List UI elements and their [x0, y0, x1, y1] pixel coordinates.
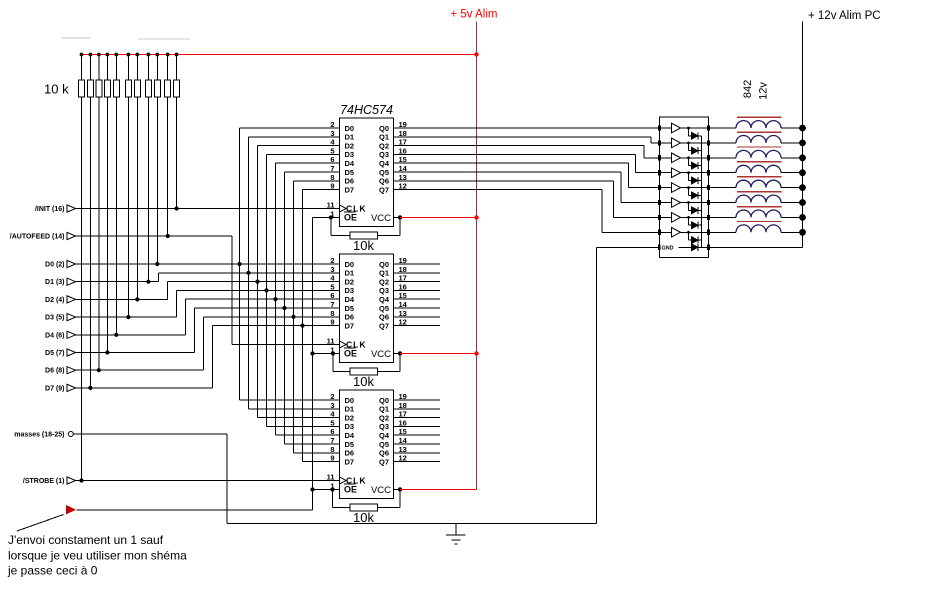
wire OE-resistor loop left U2 — [332, 354, 334, 372]
svg-text:Q6: Q6 — [379, 449, 389, 458]
wire U1 Q5 to buffer 6 — [621, 202, 660, 204]
wire VCC U3 to +5v — [400, 489, 477, 491]
buffer U4 channel 7 — [660, 216, 672, 218]
svg-text:D1: D1 — [345, 269, 355, 278]
+12v vertical rail — [802, 22, 804, 248]
wire /AUTOFEED horizontal — [76, 235, 232, 237]
svg-text:VCC: VCC — [371, 213, 391, 224]
svg-text:Q2: Q2 — [379, 413, 389, 422]
wire D7 to U2 pin 9 — [213, 325, 340, 327]
wire D3 to U1 pin 5 — [267, 153, 340, 155]
wire D4 horizontal from connector — [76, 334, 186, 336]
inductor coil L4 — [709, 172, 737, 174]
core line for L8 — [737, 221, 782, 223]
svg-text:D4 (6): D4 (6) — [45, 332, 64, 339]
svg-text:OE: OE — [344, 349, 357, 359]
svg-text:3: 3 — [330, 401, 334, 410]
wire U4 GND to ground — [597, 246, 660, 248]
diode D3 flyback — [687, 156, 690, 159]
wire D0 to U2 pin 2 — [76, 263, 340, 265]
node +12v junction 4 — [799, 169, 806, 176]
wire data bus vertical D2 — [257, 146, 259, 418]
svg-text:5: 5 — [330, 146, 334, 155]
wire OE control row from red arrow — [77, 509, 313, 511]
wire U1 Q6 horizontal — [394, 180, 614, 182]
svg-text:8: 8 — [330, 309, 334, 318]
buffer U4 channel 4 — [660, 172, 672, 174]
wire D2 horizontal from connector — [76, 298, 168, 300]
svg-text:Q3: Q3 — [379, 422, 389, 431]
wire OE-resistor loop right U2 — [378, 371, 401, 373]
svg-text:D2: D2 — [345, 141, 355, 150]
wire D6 to U2 pin 8 — [204, 316, 340, 318]
svg-text:D2: D2 — [345, 413, 355, 422]
svg-text:D0 (2): D0 (2) — [45, 262, 64, 269]
svg-text:8: 8 — [330, 173, 334, 182]
resistor R6 10k pull-up — [127, 55, 129, 81]
svg-text:Q5: Q5 — [379, 304, 389, 313]
wire OE-resistor loop right U1 — [378, 235, 401, 237]
buffer U4 channel 2 — [660, 142, 672, 144]
svg-text:VCC: VCC — [371, 485, 391, 496]
wire U2 Q4 stub — [394, 298, 441, 300]
wire D6 staircase vertical — [203, 317, 205, 370]
svg-text:8: 8 — [330, 445, 334, 454]
svg-text:D5: D5 — [345, 168, 355, 177]
wire U1 Q0 to buffer 1 — [394, 127, 660, 129]
wire D6 horizontal from connector — [76, 369, 204, 371]
svg-text:D0: D0 — [345, 260, 355, 269]
wire U1 Q1 staircase vertical — [650, 137, 652, 143]
resistor R7 10k pull-up — [136, 55, 138, 81]
inductor coil L7 — [709, 216, 737, 218]
wire U1 Q7 staircase vertical — [601, 190, 603, 233]
svg-text:D3: D3 — [345, 150, 355, 159]
resistor 10k U2 — [350, 368, 378, 375]
buffer U4 channel 6 — [660, 202, 672, 204]
svg-text:842: 842 — [742, 80, 754, 98]
wire U4 COM to +12v — [709, 246, 803, 248]
label GND inside U4 — [661, 243, 679, 251]
svg-text:D1 (3): D1 (3) — [45, 279, 64, 286]
wire U1 Q3 horizontal — [394, 153, 636, 155]
core line for L6 — [737, 191, 782, 193]
diode D4 flyback — [687, 171, 690, 174]
wire D3 horizontal from connector — [76, 316, 177, 318]
wire D1 to U2 pin 3 — [159, 272, 340, 274]
wire U1 Q1 horizontal — [394, 136, 652, 138]
wire diode common rail — [701, 136, 703, 248]
diode D6 flyback — [687, 201, 690, 204]
svg-text:Q4: Q4 — [379, 295, 390, 304]
svg-text:D6: D6 — [345, 313, 355, 322]
svg-text:OE: OE — [344, 213, 357, 223]
wire D3 to U2 pin 5 — [177, 289, 340, 291]
core line for L3 — [737, 146, 782, 148]
wire data bus vertical D4 — [275, 163, 277, 435]
svg-text:74HC574: 74HC574 — [340, 103, 393, 117]
svg-text:D4: D4 — [345, 159, 355, 168]
resistor R11 10k pull-up — [176, 55, 178, 81]
svg-text:lorsque je veu utiliser mon sh: lorsque je veu utiliser mon shéma — [8, 549, 187, 563]
svg-text:D2: D2 — [345, 277, 355, 286]
wire data bus vertical D3 — [266, 154, 268, 426]
diode D5 flyback — [687, 186, 690, 189]
inductor coil L5 — [709, 187, 737, 189]
wire U1 Q4 staircase vertical — [628, 163, 630, 187]
svg-text:D5: D5 — [345, 440, 355, 449]
svg-text:11: 11 — [327, 337, 335, 346]
node +12v junction 1 — [799, 125, 806, 132]
diode D8 flyback — [687, 231, 690, 234]
buffer U4 channel 1 — [660, 127, 672, 129]
core line for L1 — [737, 116, 782, 118]
wire data bus vertical D1 — [248, 137, 250, 409]
svg-text:7: 7 — [330, 300, 334, 309]
svg-text:2: 2 — [330, 256, 334, 265]
svg-text:Q1: Q1 — [379, 133, 389, 142]
wire U3 Q5 stub — [394, 443, 441, 445]
svg-text:D5: D5 — [345, 304, 355, 313]
wire /INIT to U1 CLK — [76, 208, 340, 210]
+5v red bus wire — [82, 54, 477, 56]
wire OE-resistor loop right U3 — [378, 507, 401, 509]
svg-text:Q7: Q7 — [379, 185, 389, 194]
svg-text:2: 2 — [330, 120, 334, 129]
svg-text:10 k: 10 k — [44, 82, 69, 97]
wire data bus vertical D5 — [284, 172, 286, 444]
svg-text:Q6: Q6 — [379, 177, 389, 186]
wire D6 to U1 pin 8 — [294, 180, 340, 182]
wire U1 Q4 horizontal — [394, 162, 629, 164]
wire D0 to U1 pin 2 — [240, 127, 340, 129]
svg-text:D1: D1 — [345, 405, 355, 414]
svg-text:9: 9 — [330, 182, 334, 191]
svg-text:Q2: Q2 — [379, 141, 389, 150]
wire U2 Q2 stub — [394, 281, 441, 283]
wire U1 Q7 horizontal — [394, 189, 603, 191]
svg-text:/AUTOFEED (14): /AUTOFEED (14) — [10, 234, 65, 241]
wire OE bus vertical — [312, 218, 314, 510]
wire OE pin U2 — [313, 353, 340, 355]
wire U1 Q7 to buffer 8 — [602, 231, 660, 233]
resistor R5 10k pull-up — [115, 55, 117, 81]
inductor coil L3 — [709, 157, 737, 159]
node OE bus at U3 — [310, 487, 314, 491]
svg-text:2: 2 — [330, 392, 334, 401]
wire U1 Q1 to buffer 2 — [651, 142, 660, 144]
wire D3 to U3 pin 5 — [267, 425, 340, 427]
node VCC pin U1 — [394, 217, 401, 219]
wire U1 Q3 staircase vertical — [635, 154, 637, 172]
node +5v bus junction — [474, 52, 478, 56]
wire D4 to U1 pin 6 — [276, 162, 340, 164]
svg-text:OE: OE — [344, 485, 357, 495]
wire D4 to U3 pin 6 — [276, 434, 340, 436]
svg-text:Q4: Q4 — [379, 431, 390, 440]
wire OE-resistor loop left U1 — [330, 218, 332, 236]
wire D5 to U1 pin 7 — [285, 171, 340, 173]
diode D2 flyback — [687, 142, 690, 145]
node +12v junction 5 — [799, 184, 806, 191]
wire VCC U2 to +5v — [400, 353, 477, 355]
inductor coil L2 — [709, 142, 737, 144]
node VCC pin U3 — [394, 489, 401, 491]
op-amp U3 74HC574 latch — [340, 390, 394, 499]
svg-text:D7: D7 — [345, 321, 355, 330]
resistor R4 10k pull-up — [106, 55, 108, 81]
wire D5 horizontal from connector — [76, 352, 195, 354]
wire D3 staircase vertical — [176, 290, 178, 317]
wire /AUTOFEED vertical — [231, 236, 233, 345]
svg-text:3: 3 — [330, 129, 334, 138]
wire U3 Q1 stub — [394, 408, 441, 410]
svg-text:D7 (9): D7 (9) — [45, 385, 64, 392]
wire D7 to U3 pin 9 — [303, 461, 340, 463]
svg-text:+ 12v Alim PC: + 12v Alim PC — [808, 10, 881, 22]
wire ground vertical — [596, 247, 598, 523]
svg-text:9: 9 — [330, 318, 334, 327]
svg-text:11: 11 — [327, 473, 335, 482]
buffer U4 channel 5 — [660, 187, 672, 189]
svg-text:10k: 10k — [353, 238, 374, 253]
diode D7 flyback — [687, 216, 690, 219]
svg-text:/STROBE (1): /STROBE (1) — [23, 478, 65, 485]
svg-text:10k: 10k — [353, 510, 374, 525]
svg-text:Q0: Q0 — [379, 124, 389, 133]
svg-text:7: 7 — [330, 436, 334, 445]
node OE bus at U2 — [310, 351, 314, 355]
svg-text:5: 5 — [330, 418, 334, 427]
svg-text:D3: D3 — [345, 286, 355, 295]
wire U3 Q7 stub — [394, 461, 441, 463]
artifact marks — [62, 37, 90, 39]
svg-text:D4: D4 — [345, 431, 355, 440]
wire D2 to U3 pin 4 — [258, 417, 340, 419]
svg-text:D6: D6 — [345, 177, 355, 186]
svg-text:je passe ceci à 0: je passe ceci à 0 — [7, 564, 98, 578]
wire U1 Q2 to buffer 3 — [644, 157, 660, 159]
svg-text:D7: D7 — [345, 185, 355, 194]
wire ground bus — [227, 523, 597, 525]
op-amp U1 74HC574 latch — [340, 118, 394, 227]
wire masses vertical to ground bus — [226, 434, 228, 524]
svg-text:Q5: Q5 — [379, 168, 389, 177]
node +12v junction 6 — [799, 199, 806, 206]
wire D1 horizontal from connector — [76, 281, 159, 283]
svg-text:Q4: Q4 — [379, 159, 390, 168]
wire U1 Q3 to buffer 4 — [636, 172, 660, 174]
wire OE-resistor loop left U3 — [332, 490, 334, 508]
wire U3 Q0 stub — [394, 399, 441, 401]
wire VCC U1 to +5v — [400, 217, 477, 219]
svg-text:D1: D1 — [345, 133, 355, 142]
core line for L2 — [737, 131, 782, 133]
svg-text:5: 5 — [330, 282, 334, 291]
wire D7 to U1 pin 9 — [303, 189, 340, 191]
wire D7 horizontal from connector — [76, 387, 213, 389]
inductor coil L8 — [709, 231, 737, 233]
resistor R8 10k pull-up — [147, 55, 149, 81]
svg-text:Q2: Q2 — [379, 277, 389, 286]
wire U2 Q7 stub — [394, 325, 441, 327]
svg-text:3: 3 — [330, 265, 334, 274]
wire data bus vertical D6 — [293, 181, 295, 453]
wire masses horizontal — [73, 433, 227, 435]
svg-text:D0: D0 — [345, 396, 355, 405]
svg-text:D0: D0 — [345, 124, 355, 133]
resistor 10k U3 — [350, 504, 378, 511]
svg-text:D3 (5): D3 (5) — [45, 315, 64, 322]
node +12v junction 2 — [799, 140, 806, 147]
wire /STROBE to U3 CLK — [76, 480, 340, 482]
svg-text:D6 (8): D6 (8) — [45, 368, 64, 375]
wire D1 to U1 pin 3 — [249, 136, 340, 138]
wire data bus vertical D7 — [302, 190, 304, 462]
resistor R9 10k pull-up — [156, 55, 158, 81]
svg-text:Q7: Q7 — [379, 321, 389, 330]
wire D1 staircase vertical — [158, 273, 160, 282]
wire U1 Q2 staircase vertical — [643, 146, 645, 158]
wire D4 to U2 pin 6 — [186, 298, 340, 300]
wire U2 Q5 stub — [394, 307, 441, 309]
wire D0 to U3 pin 2 — [240, 399, 340, 401]
wire U1 Q4 to buffer 5 — [629, 187, 660, 189]
transistor array U4 ULN2803 body — [660, 117, 709, 258]
ground symbol — [455, 524, 457, 536]
resistor R1 10k pull-up — [81, 55, 83, 81]
wire U2 Q0 stub — [394, 263, 441, 265]
svg-text:+ 5v Alim: + 5v Alim — [451, 9, 498, 21]
wire U3 Q3 stub — [394, 425, 441, 427]
+5v vertical rail — [476, 22, 478, 490]
inductor coil L6 — [709, 202, 737, 204]
wire U2 Q3 stub — [394, 289, 441, 291]
wire U2 Q1 stub — [394, 272, 441, 274]
wire D7 staircase vertical — [212, 326, 214, 388]
svg-text:/INIT (16): /INIT (16) — [35, 206, 65, 213]
wire D2 staircase vertical — [167, 282, 169, 300]
svg-text:10k: 10k — [353, 374, 374, 389]
resistor R3 10k pull-up — [98, 55, 100, 81]
svg-text:Q6: Q6 — [379, 313, 389, 322]
svg-text:7: 7 — [330, 164, 334, 173]
wire data bus vertical D0 — [239, 128, 241, 400]
wire D2 to U1 pin 4 — [258, 145, 340, 147]
wire D5 to U2 pin 7 — [195, 307, 340, 309]
svg-text:6: 6 — [330, 427, 334, 436]
wire D5 to U3 pin 7 — [285, 443, 340, 445]
wire U1 Q5 staircase vertical — [620, 172, 622, 203]
svg-text:D4: D4 — [345, 295, 355, 304]
wire U1 Q6 to buffer 7 — [613, 216, 659, 218]
svg-text:Q1: Q1 — [379, 405, 389, 414]
red control arrow — [66, 505, 76, 514]
wire D1 to U3 pin 3 — [249, 408, 340, 410]
resistor R2 10k pull-up — [89, 55, 91, 81]
node +12v junction 3 — [799, 154, 806, 161]
svg-text:Q0: Q0 — [379, 260, 389, 269]
wire D4 staircase vertical — [185, 299, 187, 335]
buffer U4 channel 3 — [660, 157, 672, 159]
node +12v junction 7 — [799, 214, 806, 221]
svg-text:D7: D7 — [345, 457, 355, 466]
annotation leader line — [17, 515, 64, 532]
wire U3 Q2 stub — [394, 417, 441, 419]
svg-text:D6: D6 — [345, 449, 355, 458]
wire D2 to U2 pin 4 — [168, 281, 340, 283]
svg-text:Q3: Q3 — [379, 286, 389, 295]
wire U3 Q4 stub — [394, 434, 441, 436]
svg-text:D5 (7): D5 (7) — [45, 350, 64, 357]
wire U3 Q6 stub — [394, 452, 441, 454]
svg-text:D2 (4): D2 (4) — [45, 297, 64, 304]
wire OE pin U1 — [313, 217, 340, 219]
svg-text:Q7: Q7 — [379, 457, 389, 466]
inductor coil L1 — [709, 127, 737, 129]
svg-text:J'envoi constament un 1 sauf: J'envoi constament un 1 sauf — [8, 533, 164, 547]
svg-text:GND: GND — [662, 246, 674, 252]
wire D6 to U3 pin 8 — [294, 452, 340, 454]
svg-text:9: 9 — [330, 454, 334, 463]
node VCC pin U2 — [394, 353, 401, 355]
core line for L5 — [737, 176, 782, 178]
core line for L4 — [737, 161, 782, 163]
resistor R10 10k pull-up — [167, 55, 169, 81]
wire /AUTOFEED to U2 CLK — [232, 344, 340, 346]
svg-text:masses (18-25): masses (18-25) — [14, 432, 64, 439]
wire U1 Q2 horizontal — [394, 145, 645, 147]
resistor 10k U1 — [350, 232, 378, 239]
svg-text:Q0: Q0 — [379, 396, 389, 405]
wire D5 staircase vertical — [194, 308, 196, 353]
node +12v junction 8 — [799, 229, 806, 236]
wire U1 Q5 horizontal — [394, 171, 622, 173]
op-amp U2 74HC574 latch — [340, 254, 394, 363]
svg-text:6: 6 — [330, 291, 334, 300]
svg-text:VCC: VCC — [371, 349, 391, 360]
wire U2 Q6 stub — [394, 316, 441, 318]
core line for L7 — [737, 206, 782, 208]
diode D9 substrate — [679, 246, 692, 248]
svg-text:12v: 12v — [758, 82, 770, 100]
wire OE pin U3 — [313, 489, 340, 491]
wire U1 Q6 staircase vertical — [612, 181, 614, 218]
svg-text:6: 6 — [330, 155, 334, 164]
diode D1 flyback — [687, 127, 690, 130]
svg-text:Q5: Q5 — [379, 440, 389, 449]
svg-text:Q1: Q1 — [379, 269, 389, 278]
buffer U4 channel 8 — [660, 231, 672, 233]
svg-text:D3: D3 — [345, 422, 355, 431]
svg-text:Q3: Q3 — [379, 150, 389, 159]
svg-text:11: 11 — [327, 201, 335, 210]
